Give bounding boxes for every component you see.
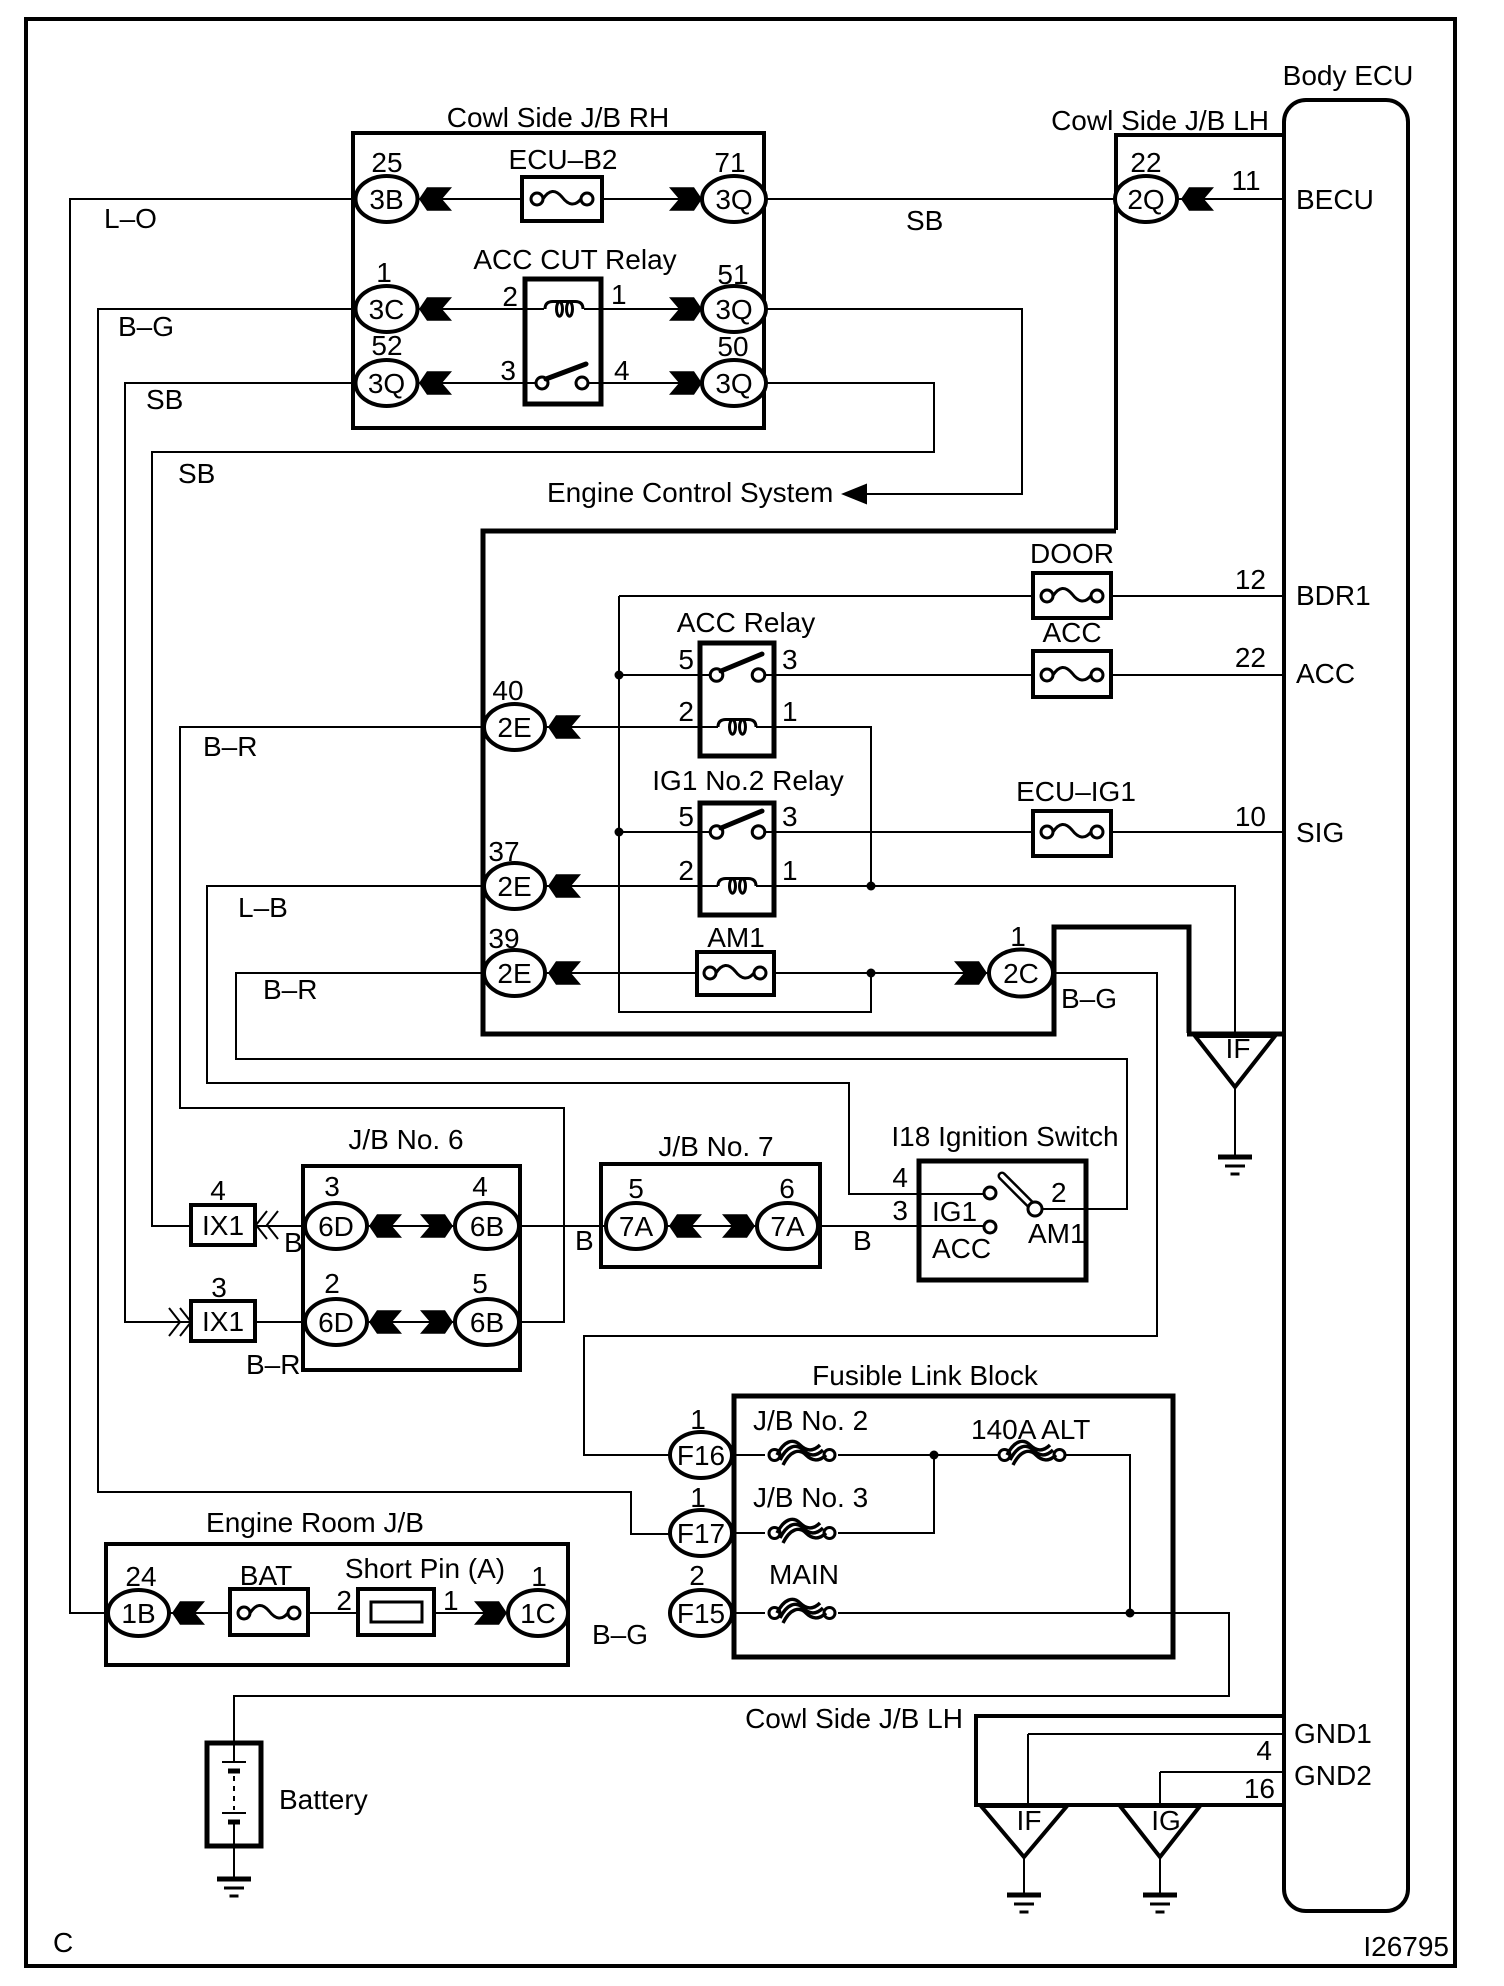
svg-text:4: 4 (614, 355, 630, 386)
fuse ECU-B2 (509, 144, 618, 221)
wire L-B from 2E(37) to ignition switch pin 4 (207, 886, 984, 1194)
svg-text:F16: F16 (677, 1440, 725, 1471)
svg-text:ACC: ACC (1296, 658, 1355, 689)
junction dot F16 row (930, 1451, 939, 1460)
svg-text:IG: IG (1151, 1805, 1181, 1836)
svg-text:4: 4 (1256, 1735, 1272, 1766)
svg-text:4: 4 (210, 1175, 226, 1206)
arrow pair J/B No.7 (669, 1214, 755, 1238)
wire from 3Q(51) to Engine Control System (766, 309, 1022, 494)
svg-text:2: 2 (678, 855, 694, 886)
wire GND1 pin 4 (1028, 1734, 1284, 1805)
Cowl Side J/B LH box (top) (1116, 135, 1284, 530)
ignition switch contact IG1 (984, 1187, 996, 1199)
arrow into 2Q (1181, 187, 1214, 211)
svg-text:AM1: AM1 (707, 922, 765, 953)
connector 3C pin 1 (356, 257, 418, 332)
svg-text:39: 39 (488, 923, 519, 954)
wire IG1 relay contact row to ECU-IG1 fuse and pin 10 (619, 831, 1284, 833)
svg-text:IX1: IX1 (202, 1210, 244, 1241)
svg-text:BDR1: BDR1 (1296, 580, 1371, 611)
connector 6B pin 5 (455, 1268, 519, 1345)
arrow into 2E(39) (548, 961, 581, 985)
svg-text:IG1 No.2 Relay: IG1 No.2 Relay (652, 765, 843, 796)
svg-text:Cowl Side J/B LH: Cowl Side J/B LH (745, 1703, 963, 1734)
svg-text:ECU–B2: ECU–B2 (509, 144, 618, 175)
arrowhead to Engine Control System (841, 484, 867, 505)
arrow pair J/B No.6 row 1 (369, 1214, 453, 1238)
svg-text:SB: SB (906, 205, 943, 236)
wire ACC CUT relay coil row (417, 308, 702, 310)
svg-text:BECU: BECU (1296, 184, 1374, 215)
Cowl Side J/B RH box (353, 133, 764, 428)
svg-text:6D: 6D (318, 1211, 354, 1242)
junction dot MAIN row (1126, 1609, 1135, 1618)
svg-text:SB: SB (178, 458, 215, 489)
svg-text:2: 2 (689, 1560, 705, 1591)
svg-text:SB: SB (146, 384, 183, 415)
ignition switch contact ACC (984, 1221, 996, 1233)
svg-text:3: 3 (892, 1195, 908, 1226)
fusible link MAIN (769, 1559, 839, 1623)
wire BECU pin 11 (1177, 198, 1284, 200)
IF ground bar (top) (1187, 1032, 1283, 1037)
connector 2E pin 40 (484, 675, 545, 750)
svg-text:1: 1 (443, 1585, 459, 1616)
connector 3Q pin 52 (356, 330, 418, 406)
wire J/B No.6 row 1 (367, 1225, 455, 1227)
svg-text:B: B (575, 1225, 594, 1256)
svg-text:1: 1 (782, 696, 798, 727)
svg-text:1: 1 (611, 279, 627, 310)
wire L-O from 3B to 1B (70, 199, 356, 1613)
ignition switch lever AM1 (1002, 1176, 1031, 1205)
svg-text:1C: 1C (520, 1598, 556, 1629)
wire IG triangle stem (1159, 1857, 1161, 1893)
short pin (A) (345, 1553, 505, 1635)
arrow pair J/B No.6 row 2 (369, 1310, 453, 1334)
wire B from 7A(6) to ignition switch pin 3 (818, 1225, 984, 1227)
Fusible Link Block box (734, 1396, 1173, 1657)
junction dot AM1 fuse output (867, 969, 876, 978)
arrow into 1B (172, 1601, 205, 1625)
wire J/B No.6 row 2 (367, 1321, 455, 1323)
arrow out to 3Q(71) (669, 187, 702, 211)
wire battery feed bus vertical (619, 596, 871, 1012)
svg-text:5: 5 (678, 644, 694, 675)
wire SB from 3Q(71) to 2Q (766, 198, 1115, 200)
svg-text:3B: 3B (369, 184, 403, 215)
svg-text:3C: 3C (369, 294, 405, 325)
wire BAT fuse and Short Pin row (169, 1612, 508, 1614)
wire ACC relay coil row (545, 727, 871, 886)
svg-text:11: 11 (1231, 165, 1260, 196)
svg-text:B–G: B–G (1061, 983, 1117, 1014)
svg-text:4: 4 (472, 1171, 488, 1202)
svg-text:37: 37 (488, 836, 519, 867)
svg-text:I18 Ignition Switch: I18 Ignition Switch (891, 1121, 1118, 1152)
connector 7A pin 6 (757, 1173, 818, 1249)
svg-text:22: 22 (1130, 147, 1161, 178)
connector 1C pin 1 (508, 1561, 568, 1636)
svg-text:SIG: SIG (1296, 817, 1344, 848)
svg-text:7A: 7A (770, 1211, 805, 1242)
relay IG1 No.2 Relay (652, 765, 843, 915)
svg-text:J/B No. 6: J/B No. 6 (348, 1124, 463, 1155)
arrow into 2C (954, 961, 987, 985)
Cowl Side J/B LH box (bottom) (976, 1716, 1284, 1805)
svg-text:2: 2 (1051, 1177, 1067, 1208)
svg-text:B–R: B–R (263, 974, 317, 1005)
fuse DOOR (1030, 538, 1114, 618)
chevrons at IX1(4) (256, 1211, 278, 1239)
svg-text:IG1: IG1 (932, 1196, 977, 1227)
wire battery negative to ground (233, 1846, 235, 1879)
svg-text:BAT: BAT (240, 1560, 292, 1591)
svg-text:5: 5 (628, 1173, 644, 1204)
svg-text:ACC: ACC (932, 1233, 991, 1264)
ground symbol IG (1143, 1895, 1177, 1912)
svg-text:J/B No. 7: J/B No. 7 (658, 1131, 773, 1162)
svg-text:J/B No. 2: J/B No. 2 (753, 1405, 868, 1436)
svg-text:3: 3 (211, 1272, 227, 1303)
wire F16 row with J/B No.2 and 140A ALT links (732, 1455, 1130, 1613)
connector 6D pin 3 (305, 1171, 367, 1249)
svg-text:B–G: B–G (592, 1619, 648, 1650)
svg-text:2: 2 (502, 281, 518, 312)
arrow into 3Q(52) (419, 371, 452, 395)
wire IF triangle stem (top) (1234, 1087, 1236, 1157)
svg-text:7A: 7A (619, 1211, 654, 1242)
svg-text:2C: 2C (1003, 958, 1039, 989)
svg-text:6B: 6B (470, 1307, 504, 1338)
arrow into 3B (419, 187, 452, 211)
connector 2Q pin 22 (1115, 147, 1177, 222)
connector F16 pin 1 (670, 1404, 732, 1478)
connector 6B pin 4 (455, 1171, 519, 1249)
svg-text:I26795: I26795 (1363, 1931, 1449, 1962)
main junction block outline (483, 531, 1189, 1034)
svg-text:2: 2 (324, 1268, 340, 1299)
svg-text:ACC: ACC (1042, 617, 1101, 648)
connector 3Q pin 50 (702, 331, 766, 406)
svg-text:Body ECU: Body ECU (1283, 60, 1414, 91)
fusible link J/B No. 3 (753, 1482, 868, 1543)
wire SB from 3Q(52) to IX1(3) (125, 383, 356, 1322)
svg-text:1B: 1B (121, 1598, 155, 1629)
connector F15 pin 2 (670, 1560, 732, 1636)
svg-text:Cowl Side J/B RH: Cowl Side J/B RH (447, 102, 670, 133)
svg-text:IX1: IX1 (202, 1306, 244, 1337)
chevrons at IX1(3) (169, 1308, 191, 1336)
connector IX1 pin 4 (191, 1175, 255, 1245)
wire IX1(3) to 6D(2) (255, 1321, 305, 1323)
wire SB from 3Q(50) to IX1(4) (152, 383, 934, 1226)
fusible link 140A ALT (971, 1414, 1090, 1465)
svg-text:1: 1 (782, 855, 798, 886)
wire B-R from 2E(40) to 6B(5) (180, 727, 564, 1322)
arrow into 3C (419, 297, 452, 321)
svg-text:71: 71 (714, 147, 745, 178)
svg-text:Engine Room J/B: Engine Room J/B (206, 1507, 424, 1538)
fuse BAT (230, 1560, 308, 1635)
IF ground triangle (bottom) (981, 1806, 1067, 1857)
connector IX1 pin 3 (191, 1272, 255, 1341)
J/B No.6 box (303, 1166, 520, 1370)
wire DOOR fuse row to BDR1 (619, 595, 1284, 597)
svg-text:J/B No. 3: J/B No. 3 (753, 1482, 868, 1513)
svg-text:2E: 2E (497, 958, 531, 989)
svg-text:52: 52 (371, 330, 402, 361)
junction dot ACC relay pin 5 (615, 671, 624, 680)
svg-text:B–G: B–G (118, 311, 174, 342)
svg-text:5: 5 (678, 801, 694, 832)
svg-text:3: 3 (324, 1171, 340, 1202)
IF ground triangle (top) (1195, 1036, 1275, 1087)
wire AM1 fuse row to 2C (545, 972, 989, 974)
wire B-G from 2C to F16 (584, 973, 1157, 1455)
svg-text:50: 50 (717, 331, 748, 362)
svg-text:2Q: 2Q (1127, 184, 1164, 215)
arrow out to 3Q(51) (669, 297, 702, 321)
svg-text:2E: 2E (497, 871, 531, 902)
connector 3B pin 25 (356, 147, 418, 222)
svg-text:3: 3 (500, 355, 516, 386)
svg-text:3Q: 3Q (715, 184, 752, 215)
svg-text:140A ALT: 140A ALT (971, 1414, 1090, 1445)
connector 1B pin 24 (108, 1561, 169, 1636)
connector 3Q pin 51 (702, 259, 766, 332)
svg-text:25: 25 (371, 147, 402, 178)
svg-text:1: 1 (531, 1561, 547, 1592)
arrow into 1C (474, 1601, 507, 1625)
svg-text:3: 3 (782, 644, 798, 675)
fuse AM1 (697, 922, 774, 995)
wire B-G from 3C to F17 (98, 309, 669, 1534)
svg-text:1: 1 (690, 1482, 706, 1513)
wire ECU-B2 fuse row (417, 198, 702, 200)
ground symbol battery (217, 1879, 251, 1896)
svg-text:5: 5 (472, 1268, 488, 1299)
svg-text:Engine Control System: Engine Control System (547, 477, 833, 508)
svg-text:16: 16 (1244, 1773, 1275, 1804)
Engine Room J/B box (106, 1544, 568, 1665)
ignition switch contact AM1 (1028, 1202, 1042, 1216)
connector 2E pin 37 (484, 836, 545, 909)
svg-text:L–B: L–B (238, 892, 288, 923)
wire B from 6B(4) to 7A(5) (519, 1225, 606, 1227)
arrow out to 3Q(50) (669, 371, 702, 395)
svg-text:3: 3 (782, 801, 798, 832)
arrow into 2E(40) (548, 715, 581, 739)
relay ACC Relay (677, 607, 815, 756)
svg-text:12: 12 (1235, 564, 1266, 595)
svg-text:DOOR: DOOR (1030, 538, 1114, 569)
svg-text:AM1: AM1 (1028, 1218, 1086, 1249)
svg-text:2: 2 (336, 1585, 352, 1616)
svg-text:F17: F17 (677, 1518, 725, 1549)
svg-text:3Q: 3Q (715, 294, 752, 325)
svg-text:B–R: B–R (203, 731, 257, 762)
ground symbol IF (top) (1218, 1157, 1252, 1174)
svg-text:Short Pin (A): Short Pin (A) (345, 1553, 505, 1584)
svg-text:22: 22 (1235, 642, 1266, 673)
connector 3Q pin 71 (702, 147, 766, 222)
svg-text:2: 2 (678, 696, 694, 727)
svg-text:6: 6 (779, 1173, 795, 1204)
wire F17 row with J/B No.3 link (732, 1455, 934, 1533)
svg-text:40: 40 (492, 675, 523, 706)
junction dot IG1 relay pin 5 (615, 828, 624, 837)
Body ECU (1284, 100, 1408, 1911)
svg-text:ACC CUT Relay: ACC CUT Relay (473, 244, 676, 275)
svg-text:C: C (53, 1927, 73, 1958)
svg-text:F15: F15 (677, 1598, 725, 1629)
svg-text:3Q: 3Q (368, 368, 405, 399)
connector 7A pin 5 (606, 1173, 666, 1249)
I18 Ignition Switch box (919, 1161, 1086, 1280)
wire MAIN link row and battery trunk (234, 1613, 1229, 1743)
relay ACC CUT Relay (473, 244, 676, 404)
J/B No.7 box (601, 1164, 820, 1267)
IG ground triangle (bottom) (1120, 1806, 1200, 1857)
svg-text:10: 10 (1235, 801, 1266, 832)
svg-text:1: 1 (690, 1404, 706, 1435)
battery (207, 1743, 261, 1846)
svg-text:B: B (853, 1225, 872, 1256)
wire IX1(4) to 6D(3) (255, 1225, 305, 1227)
wire GND2 pin 16 (1160, 1772, 1284, 1805)
svg-text:1: 1 (1010, 921, 1026, 952)
svg-text:6B: 6B (470, 1211, 504, 1242)
fuse ECU-IG1 (1016, 776, 1136, 856)
connector F17 pin 1 (670, 1482, 732, 1556)
svg-text:IF: IF (1017, 1805, 1042, 1836)
arrow into 2E(37) (548, 874, 581, 898)
wire J/B No.7 row (666, 1225, 757, 1227)
svg-text:GND1: GND1 (1294, 1718, 1372, 1749)
svg-text:6D: 6D (318, 1307, 354, 1338)
svg-text:4: 4 (892, 1162, 908, 1193)
fuse ACC (1033, 617, 1111, 697)
svg-text:2E: 2E (497, 712, 531, 743)
junction dot IG1 relay coil pin 1 (867, 882, 876, 891)
svg-text:Battery: Battery (279, 1784, 368, 1815)
connector 2C pin 1 (989, 921, 1053, 997)
wire IG1 relay coil row to IF ground (545, 886, 1235, 1033)
svg-text:3Q: 3Q (715, 368, 752, 399)
svg-text:MAIN: MAIN (769, 1559, 839, 1590)
svg-text:IF: IF (1226, 1033, 1251, 1064)
wire IF triangle stem (bottom) (1023, 1857, 1025, 1893)
svg-text:Cowl Side J/B LH: Cowl Side J/B LH (1051, 105, 1269, 136)
wire ACC relay contact row to ACC fuse and pin 22 (619, 674, 1284, 676)
svg-text:ACC Relay: ACC Relay (677, 607, 815, 638)
connector 2E pin 39 (484, 923, 545, 996)
svg-text:24: 24 (125, 1561, 156, 1592)
svg-text:51: 51 (717, 259, 748, 290)
svg-text:B–R: B–R (246, 1349, 300, 1380)
svg-text:1: 1 (376, 257, 392, 288)
wire B-R from 2E(39) to ignition switch AM1 pin 2 (236, 973, 1127, 1209)
svg-text:B: B (284, 1227, 303, 1258)
svg-text:Fusible Link Block: Fusible Link Block (812, 1360, 1039, 1391)
svg-text:ECU–IG1: ECU–IG1 (1016, 776, 1136, 807)
svg-text:GND2: GND2 (1294, 1760, 1372, 1791)
ground symbol IF (bottom) (1007, 1895, 1041, 1912)
wire ACC CUT relay switch row (417, 382, 702, 384)
svg-text:L–O: L–O (104, 203, 157, 234)
connector 6D pin 2 (305, 1268, 367, 1345)
fusible link J/B No. 2 (753, 1405, 868, 1465)
